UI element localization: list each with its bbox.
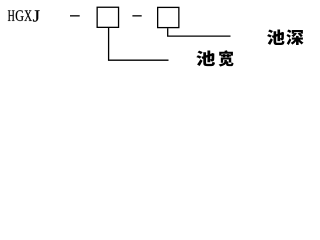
letter X of model code HGXJ (24, 10, 31, 21)
leader line from box 2 down to label 池深 (168, 28, 231, 36)
label 池宽 (pool width): char 宽 (219, 50, 234, 66)
dash separator 1 (70, 15, 80, 16)
label 池深 (pool depth): char 深 (286, 29, 303, 45)
letter J of model code HGXJ (33, 10, 40, 21)
letter H of model code HGXJ (8, 10, 15, 21)
field box 2 (pool depth code) (158, 7, 179, 27)
leader line from box 1 down to label 池宽 (109, 28, 169, 60)
label 池宽 (pool width): char 池 (196, 51, 215, 67)
field box 1 (pool width code) (97, 7, 118, 27)
letter G of model code HGXJ (16, 10, 24, 21)
dash separator 2 (132, 15, 141, 16)
label 池深 (pool depth): char 池 (267, 29, 284, 45)
